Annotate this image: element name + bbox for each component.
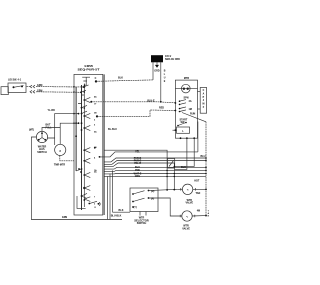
timer box [74,74,103,215]
timer top T contact [82,77,90,85]
wire lid-sw to timer 2 [36,91,81,94]
svg-text:VALVE: VALVE [182,227,190,230]
valve1 circle [182,184,192,194]
dot w1 origin [99,156,101,158]
timer contact tiny labels [94,96,97,209]
ground pin arrow [156,62,158,65]
valve1 left tick [178,188,183,191]
junction dot valve1 left [166,189,168,191]
lid switch arm [14,86,24,88]
bundle wire 3 PUR-E [105,161,207,165]
junction dot BLK-E inside timer [90,101,92,103]
capacitor vertical letters [202,90,204,109]
svg-text:TMR-MTR: TMR-MTR [54,164,65,167]
wire motor bottom 2 down BLK [175,138,195,166]
svg-text:(MT): (MT) [29,128,34,131]
connector chevrons wire 1 [30,85,35,88]
lid switch SW1 box [8,83,26,93]
lid switch terminal dots [13,86,15,88]
bundle wire 1 YEL [100,152,198,157]
svg-text:YL-RD: YL-RD [48,109,56,112]
right line tiny letters [208,211,210,218]
valve2 left tick [178,215,182,218]
wire BLK to selector [113,211,131,213]
timer interior column 2 [81,85,83,210]
capacitor box [200,88,206,114]
stacked wire letters B L K [164,71,166,84]
junction dots bundle/vertical crossings [166,157,207,177]
wire lid-sw to timer 1 [27,86,84,88]
wire TM top [59,128,61,145]
motor contact 1 [180,100,187,105]
svg-text:YEL: YEL [135,151,140,154]
svg-text:BLK: BLK [181,166,186,169]
timer interior column 1 [75,87,77,171]
timer left-edge entry dots [73,86,75,124]
bundle wire 6 PNK [105,170,207,171]
motor bottom terminal 1 [186,137,188,139]
water level switch contacts [38,132,46,140]
timer right edge dark line [103,74,105,215]
svg-text:BLU: BLU [201,155,206,158]
svg-text:(Y): (Y) [134,206,137,209]
junction dot service/BLK-E [160,101,162,103]
motor bottom terminal 2 [193,137,195,139]
wire selector P to valve2 [149,198,178,216]
plug left prong + BLK corner [152,62,154,80]
timer interior column 3 [83,84,85,208]
timer right-edge contact dot [96,115,98,117]
svg-text:YEL-R: YEL-R [134,162,141,165]
svg-text:MTR: MTR [184,77,189,80]
motor terminal 1 [175,102,177,104]
service cord plug [151,55,163,62]
selector bottom stubs [140,212,146,216]
svg-text:LID SW. 4-1: LID SW. 4-1 [8,79,22,82]
svg-text:VALVE: VALVE [185,202,193,205]
dot at timer entry [78,122,80,124]
motor diagonal wire [182,113,206,122]
wire through motor circle [175,88,197,90]
svg-text:TAN: TAN [196,192,201,195]
wire motor bottom 1 down [175,138,187,169]
svg-text:C: C [95,77,97,80]
svg-text:FULL: FULL [46,127,53,130]
lid switch mounting bracket box [1,87,8,95]
timer column dots [75,86,85,201]
wire BLK timer to service cord [96,80,153,81]
bundle wire 5 BLU [105,167,207,169]
bundle wire 2 PUR-B [105,158,207,162]
motor contact 3 [178,123,186,126]
svg-text:SWITCH: SWITCH [37,151,47,154]
valve2 right tick [192,215,206,218]
bundle wire 7 WHT-E [105,173,207,175]
water level switch arm [39,133,46,140]
timer lower contact dots [78,91,99,205]
junction dots bracket [205,188,207,190]
svg-text:BLU-BLK: BLU-BLK [111,215,122,218]
svg-text:GRD: GRD [154,69,160,72]
wire WLS left down and bottom GRN run [31,137,122,220]
svg-text:ORG: ORG [135,175,141,178]
wire TM bottom to timer [60,156,74,161]
selector contacts [132,190,149,208]
motor left bottom terminal stub [173,129,177,131]
svg-text:RED: RED [159,107,164,110]
timer contact arms with arrows [76,85,100,208]
bundle wire 8 ORG [105,175,207,177]
svg-text:GRN: GRN [62,216,68,219]
valve2 circle [182,211,192,221]
connector chevrons wire 2 [30,90,35,93]
svg-text:∿: ∿ [187,189,189,192]
wire selector R to valve1 [149,189,178,190]
svg-text:4A: 4A [189,100,192,103]
wire BLK-E timer to motor [91,102,175,103]
svg-text:SEQ-PUR-5T: SEQ-PUR-5T [78,69,101,72]
motor terminal 2 [175,110,177,112]
selector arms [133,191,145,202]
wire RED timer to motor (with jog) [97,110,175,116]
svg-text:RUN: RUN [190,113,195,116]
motor thermal protector box [177,127,190,133]
T stem junction dot [84,84,86,86]
bundle drop vertical 1 [107,176,109,219]
wire timer to valve1 left (down x167) [105,150,168,190]
motor left bottom terminal [175,129,177,131]
motor circle [182,84,191,93]
wire motor to capacitor top [198,91,201,93]
motor contact 2 [180,107,187,112]
svg-text:HOT: HOT [194,180,200,183]
wire motor to capacitor bottom [198,108,201,110]
svg-text:SWITCH: SWITCH [137,222,147,225]
connector block [168,159,175,169]
wire WLS right to timer [47,114,78,145]
selector switch box [130,188,158,212]
plug right prong (long service line) [160,62,162,102]
svg-text:∿: ∿ [186,215,188,218]
svg-text:BL-BLU: BL-BLU [108,128,117,131]
timer motor circle [55,144,66,155]
svg-text:SER-CE CRD: SER-CE CRD [165,58,180,61]
svg-text:M: M [202,104,204,106]
svg-text:BLK: BLK [119,209,124,212]
timer terminal C dot [95,80,97,82]
bundle drop vertical 3 [112,170,114,212]
motor box [175,80,197,138]
right bracket vertical [205,122,207,216]
timer edge dot lower [94,147,96,149]
valve1 right tick [193,188,206,191]
motor circle dots [183,88,185,90]
svg-text:4M: 4M [197,209,200,212]
timer entry dot YL-RD [78,113,80,115]
wire WLS top to timer [42,123,79,131]
connector block diagonal [169,161,174,167]
motor bottom terminal 3 [180,137,182,139]
wire motor right down to YEL [197,122,199,152]
water level switch circle [36,131,47,142]
svg-text:BLK-E: BLK-E [147,100,155,103]
bundle wire 4 YEL-R [105,163,175,190]
bundle drop vertical 2 [109,174,111,220]
svg-text:1M: 1M [189,108,192,111]
svg-text:BLK: BLK [118,77,123,80]
